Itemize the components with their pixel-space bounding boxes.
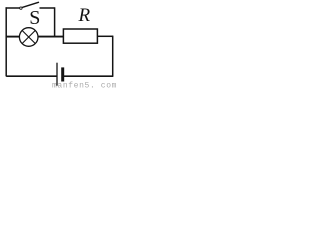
wire: right vertical down to bottom (112, 36, 114, 77)
wire: top horizontal left segment to switch pivot (6, 7, 20, 9)
svg-text:manfen5. com: manfen5. com (52, 82, 117, 89)
lamp X diagonal 1 (22, 31, 35, 44)
lamp L (circle with X) (19, 28, 38, 47)
wire: right side of switch-lamp loop (54, 7, 56, 37)
svg-text:R: R (78, 5, 91, 26)
svg-text:S: S (29, 7, 40, 29)
wire: bottom horizontal from left to battery (6, 75, 57, 77)
switch S pivot circle (20, 7, 22, 9)
wire: left vertical (5, 7, 7, 76)
wire: from resistor right to right vertical (97, 35, 113, 37)
wire: top horizontal right segment after switch (40, 7, 55, 9)
switch S blade (23, 2, 39, 7)
wire: middle horizontal from left wire to lamp (6, 36, 20, 38)
wire: middle horizontal from lamp to resistor (38, 36, 64, 38)
resistor R box (63, 29, 97, 43)
battery short thick plate (negative) (61, 67, 64, 81)
battery long plate (positive) (56, 63, 58, 86)
lamp X diagonal 2 (22, 31, 35, 44)
wire: bottom horizontal from battery to right vertical (64, 75, 113, 77)
